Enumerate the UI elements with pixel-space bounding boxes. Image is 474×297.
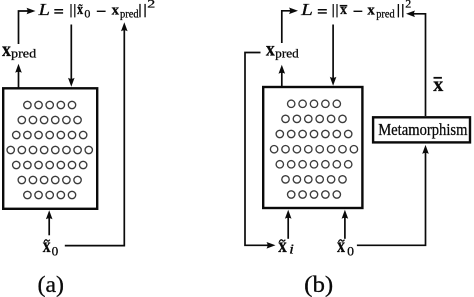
- svg-text:0: 0: [347, 244, 354, 259]
- svg-text:x: x: [43, 235, 51, 257]
- label x~0 B: [337, 235, 354, 258]
- arrow x~0 up into box B: [344, 217, 346, 239]
- label x~0 A: [43, 235, 58, 258]
- arrow x~i up into box B: [287, 217, 289, 239]
- svg-text:(b): (b): [304, 272, 333, 297]
- wire x0 to equation up arrow A: [65, 30, 125, 246]
- svg-text:0: 0: [52, 244, 59, 259]
- svg-text:2: 2: [147, 0, 155, 11]
- svg-text:pred: pred: [376, 8, 395, 20]
- svg-text:0: 0: [84, 8, 90, 20]
- wire x_pred to L with arrow B: [282, 11, 292, 43]
- svg-text:x: x: [340, 2, 347, 18]
- svg-text:x: x: [337, 235, 345, 257]
- wire Metamorphism to equation with arrow B: [412, 14, 425, 116]
- svg-text:x: x: [266, 39, 275, 61]
- loss equation A: [37, 0, 155, 20]
- arrow box A top to x_pred: [18, 71, 20, 88]
- neuron circles A: [7, 101, 92, 198]
- label x_pred A: [2, 39, 37, 61]
- arrow equation down into box A: [70, 25, 72, 80]
- svg-text:L: L: [37, 0, 50, 19]
- svg-text:pred: pred: [120, 8, 139, 20]
- svg-text:Metamorphism: Metamorphism: [378, 120, 467, 139]
- svg-text:(a): (a): [38, 272, 65, 297]
- svg-text:x: x: [278, 235, 287, 257]
- wire x~0 to Metamorphism with arrow B: [357, 152, 426, 245]
- arrow box B top to x_pred: [281, 72, 283, 87]
- svg-text:x: x: [2, 39, 11, 61]
- wire x_pred to L with arrow A: [19, 11, 30, 44]
- caption (b): [304, 272, 333, 297]
- svg-text:pred: pred: [275, 45, 299, 60]
- caption (a): [38, 272, 65, 297]
- svg-text:x: x: [367, 3, 375, 19]
- svg-text:i: i: [289, 242, 294, 257]
- label x~i B: [278, 235, 294, 257]
- label x-bar B: [433, 74, 443, 96]
- svg-text:x: x: [112, 3, 120, 19]
- svg-text:2: 2: [405, 0, 411, 11]
- neuron circles B: [270, 100, 357, 198]
- label x_pred B: [266, 39, 299, 61]
- arrow x0 up into box A: [48, 218, 50, 236]
- loss equation B: [300, 0, 412, 20]
- svg-text:L: L: [300, 0, 313, 19]
- Metamorphism box: [373, 117, 470, 142]
- svg-text:pred: pred: [11, 46, 37, 61]
- network box A: [3, 88, 97, 209]
- feedback wire x_pred to x~i B: [245, 53, 269, 246]
- network box B: [263, 87, 362, 208]
- arrow equation down into box B: [332, 25, 334, 79]
